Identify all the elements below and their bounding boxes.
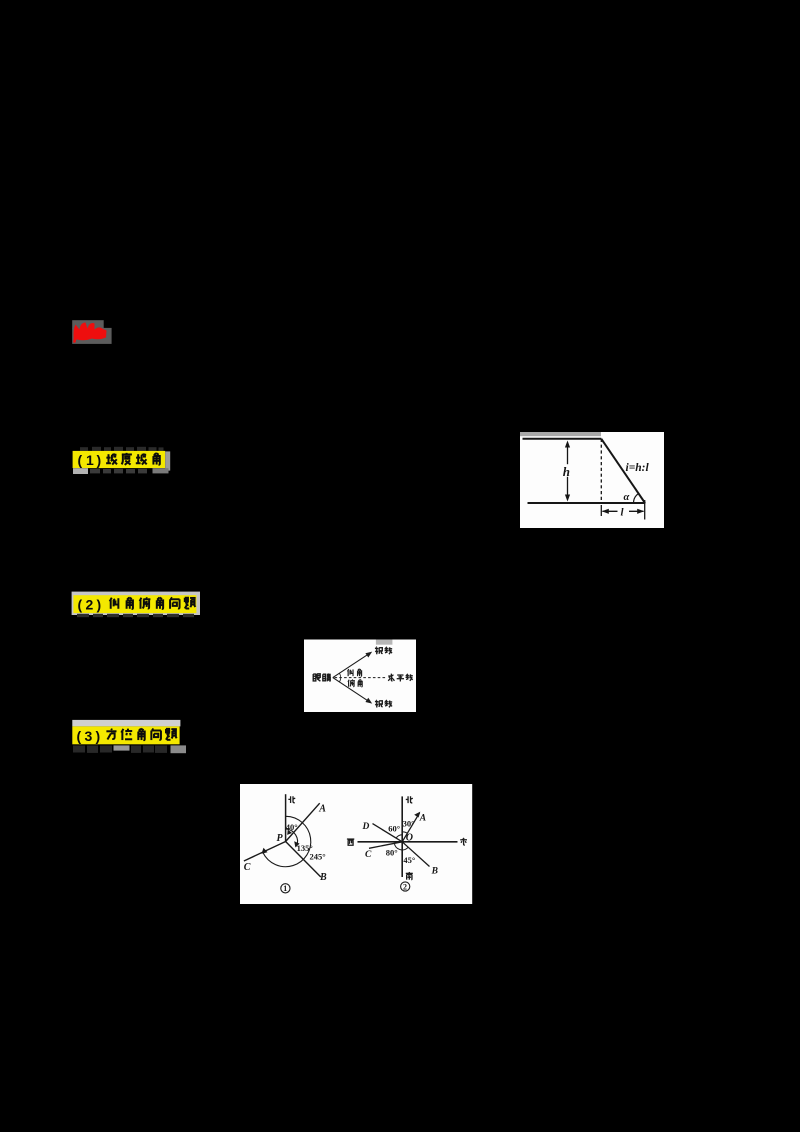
svg-text:1: 1 (283, 884, 287, 893)
slope h arrowheads (565, 441, 570, 448)
heading 3 yellow highlight (72, 726, 179, 744)
heading 1 ghost fragments above (80, 447, 164, 451)
eye vertex arc (339, 673, 340, 682)
svg-text:B: B (319, 872, 327, 883)
slope l arrow shafts (603, 510, 644, 512)
svg-text:40°: 40° (286, 822, 298, 832)
heading 1 right gray sliver (165, 451, 170, 470)
eye glyphs 仰角 (347, 669, 361, 676)
slope incline line (601, 439, 645, 503)
svg-text:α: α (624, 492, 630, 503)
d1 glyph north (288, 796, 295, 803)
d2 glyph east (460, 838, 467, 845)
d1 ray PB (286, 842, 321, 878)
slope diagram gray scan band (520, 432, 601, 436)
slope top ground line (523, 438, 602, 440)
d2 ray OB (402, 842, 429, 867)
d1 circled 1 (281, 884, 290, 893)
svg-text:(2): (2) (78, 597, 102, 613)
slope h arrow shaft (567, 443, 569, 499)
svg-text:45°: 45° (403, 855, 415, 865)
slope l right tick (644, 500, 646, 520)
svg-text:i=h:l: i=h:l (626, 462, 650, 474)
slope dashed height line (600, 439, 602, 503)
heading 2 gray backing (72, 592, 200, 615)
d2 OA arrowhead (414, 812, 420, 818)
d2 glyph west (347, 839, 354, 845)
d2 ray OD (373, 824, 403, 842)
eye diagram gray scan patch (376, 640, 393, 645)
slope label h (562, 464, 573, 477)
svg-text:(3): (3) (77, 728, 101, 744)
svg-text:C: C (365, 850, 372, 860)
heading 3 glyphs 方位角问题 (106, 729, 177, 740)
heading 1 yellow highlight (73, 451, 166, 468)
svg-text:60°: 60° (388, 824, 400, 834)
eye upper arrowhead (365, 652, 372, 658)
svg-text:D: D (362, 822, 370, 832)
heading 2 yellow highlight (73, 595, 196, 613)
d1 arc135 arrowhead (294, 841, 299, 847)
svg-text:A: A (419, 814, 426, 824)
red teacher mark on gray patch (72, 320, 111, 344)
eye horizontal dashed line (335, 677, 386, 679)
eye glyphs lower 视线 (375, 700, 392, 708)
svg-text:C: C (244, 862, 251, 873)
d2 glyph north (406, 796, 413, 803)
slope l arrowheads (602, 509, 609, 514)
d1 ray PC (244, 842, 286, 862)
svg-text:(1): (1) (78, 452, 102, 468)
heading 1 glyphs 坡度坡角 (106, 453, 160, 465)
heading 2 glyphs 仰角俯角问题 (110, 597, 196, 608)
svg-text:245°: 245° (310, 851, 326, 861)
d1 ray PA (286, 803, 320, 841)
heading 3 ghost fragments below (73, 746, 167, 753)
eye upper sight line (333, 653, 370, 678)
svg-text:A: A (318, 804, 326, 815)
slope angle arc (634, 494, 639, 504)
heading 2 ghost dashes below (77, 614, 194, 617)
d1 arc 245 (263, 816, 311, 866)
slope bottom ground line (528, 502, 646, 504)
d2 arc N-OA (402, 832, 407, 833)
svg-text:O: O (406, 833, 413, 844)
slope diagram white box (520, 432, 664, 528)
d1 arc245 arrowhead (262, 848, 268, 854)
d2 arc OD-N (396, 835, 402, 839)
d2 horizontal WE line (358, 841, 458, 843)
svg-text:B: B (431, 867, 438, 877)
eye lower arrowhead (365, 698, 372, 704)
d2 glyph south (406, 872, 413, 880)
svg-text:P: P (277, 833, 284, 844)
eye glyphs 俯角 (348, 680, 362, 687)
d2 ray OC (369, 842, 402, 849)
eye glyphs 眼睛 (313, 673, 331, 681)
d2 ray OA (402, 813, 419, 842)
heading 1 ghost fragments below (73, 468, 88, 474)
d1 arc 135 (286, 829, 298, 846)
heading 3 gray strip above (72, 720, 180, 727)
eye glyphs upper 视线 (375, 647, 392, 655)
svg-text:30°: 30° (403, 818, 415, 828)
d2 circled 2 (401, 882, 410, 891)
svg-text:h: h (563, 464, 570, 479)
slope l left tick (600, 505, 602, 516)
d1 north line (285, 794, 287, 841)
svg-text:80°: 80° (386, 847, 398, 857)
d1 small arrow 40 (287, 830, 292, 835)
d2 arc OB-S-OC (394, 843, 408, 850)
svg-text:2: 2 (403, 882, 407, 891)
eye glyphs 水平线 (388, 674, 413, 682)
eye diagram white box (304, 640, 416, 713)
compass diagram white box (240, 784, 472, 904)
eye lower sight line (333, 678, 370, 703)
d2 vertical NS line (401, 796, 403, 877)
